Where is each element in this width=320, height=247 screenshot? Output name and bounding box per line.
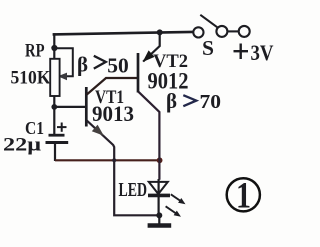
switch S lever [200,15,218,28]
svg-text:β: β [166,89,177,113]
resistor RP (potentiometer body) [50,59,59,96]
capacitor C1 bottom plate [46,141,69,144]
node junction dot on top rail (VT2 emitter) [157,29,163,35]
svg-text:510K: 510K [11,68,51,89]
wire switch to battery [227,30,240,32]
wire rail left drop to RP top [53,33,55,60]
LED light arrow 2 [166,206,179,215]
node crossing blob at emitter/feedback wire [112,158,116,162]
svg-text:RP: RP [25,41,45,62]
LED light arrow 1 [171,194,183,202]
wire C1 top lead [53,107,55,135]
transistor VT2 collector lead [139,92,160,180]
LED anode lead through symbol [158,179,160,216]
node junction dot LED cathode / VT1 emitter [156,212,162,218]
figure number circle 1 [227,178,260,211]
node junction dot on VT2 collector line [157,157,163,163]
wire long feedback bottom wire C1 to VT2 collector [55,159,160,161]
capacitor C1 top plate [49,134,65,137]
switch S terminal circle 2 [216,26,227,37]
transistor VT1 emitter arrowhead [92,125,104,136]
transistor VT2 base bar [137,53,140,93]
node junction dot above RP [51,45,57,51]
svg-text:50: 50 [107,53,129,77]
label +3V plus sign [234,44,249,60]
transistor VT1 base bar [85,87,88,127]
wire top rail [53,32,193,35]
transistor VT1 emitter lead [87,121,159,216]
ground bar [148,223,172,228]
svg-text:β: β [77,52,88,76]
transistor VT1 collector lead [87,78,138,95]
transistor VT2 emitter arrowhead [143,50,155,62]
svg-text:LED: LED [119,179,148,201]
transistor VT2 emitter lead [143,32,160,61]
node junction dot at RP/C1/base [51,104,57,110]
wire RP bottom lead [53,96,55,108]
switch S terminal circle 1 [193,27,203,37]
diode LED cathode bar [148,194,170,198]
capacitor C1 polarity plus sign [57,123,67,132]
svg-text:9013: 9013 [92,101,134,126]
wire C1 bottom lead [54,143,56,162]
wire RP wiper loop [55,48,73,76]
ground lead [158,215,160,224]
wire base of VT1 [54,106,86,108]
wiper arrowhead of RP [58,73,67,81]
svg-text:S: S [202,36,214,60]
svg-text:1: 1 [236,176,251,217]
battery terminal circle [239,26,250,37]
svg-text:70: 70 [200,91,222,113]
diode LED triangle [149,182,168,194]
svg-text:22μ: 22μ [3,135,41,156]
svg-text:3V: 3V [251,40,274,65]
